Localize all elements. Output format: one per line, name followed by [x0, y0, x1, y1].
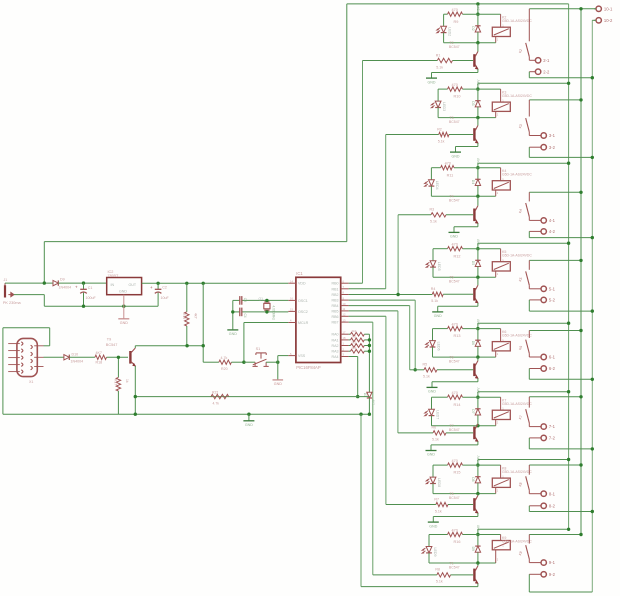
wire channel 8 emitter return — [360, 414, 362, 586]
pad 10-2 — [594, 19, 596, 21]
wire supply branch block 6 — [478, 391, 569, 393]
wire T9 emitter — [134, 366, 136, 414]
svg-text:1N4004: 1N4004 — [59, 286, 72, 290]
wire bottom rail block 8 — [429, 562, 496, 564]
svg-text:R20: R20 — [221, 367, 228, 371]
resistor R23 2k2 — [349, 345, 351, 347]
svg-text:G5D-1A-ASI24VDC: G5D-1A-ASI24VDC — [502, 470, 532, 474]
svg-text:GND: GND — [274, 382, 282, 386]
node supply junction block 7 — [476, 463, 479, 466]
svg-text:RB2: RB2 — [332, 293, 339, 297]
wire bottom rail block 1 — [444, 42, 496, 44]
ground block 1 — [426, 77, 437, 79]
svg-text:R11: R11 — [447, 173, 454, 177]
pin RB4 — [341, 305, 349, 307]
svg-text:R22: R22 — [212, 390, 218, 394]
svg-text:C4: C4 — [243, 314, 247, 318]
wire emitter block 8 return to ground rail — [477, 584, 479, 587]
svg-text:R13: R13 — [454, 334, 461, 338]
svg-text:R6: R6 — [432, 426, 437, 430]
svg-text:470: 470 — [452, 459, 458, 463]
wire DB9 ground loop — [3, 327, 50, 329]
svg-text:4k7: 4k7 — [194, 313, 198, 319]
svg-text:R16: R16 — [454, 540, 461, 544]
svg-text:BC547: BC547 — [449, 45, 460, 49]
svg-text:4.7k: 4.7k — [221, 356, 228, 360]
resistor R20 4.7k — [203, 361, 219, 363]
svg-text:4.7k: 4.7k — [213, 402, 220, 406]
svg-text:LED8: LED8 — [437, 478, 441, 487]
svg-text:5.1k: 5.1k — [436, 580, 443, 584]
svg-text:IN: IN — [111, 283, 115, 287]
wire contact to return rail block 6 — [528, 438, 530, 449]
wire VSS — [278, 355, 289, 357]
svg-text:BC547: BC547 — [449, 565, 460, 569]
svg-text:D7: D7 — [471, 409, 475, 413]
svg-text:R9: R9 — [454, 20, 459, 24]
svg-text:R1: R1 — [436, 53, 441, 57]
LED LED3 — [437, 89, 439, 101]
svg-text:MCLR: MCLR — [298, 321, 309, 325]
resistor R22 4.7k — [211, 394, 229, 398]
relay contact switch K8 — [528, 465, 530, 475]
resistor R8 5.1k — [437, 573, 451, 577]
svg-text:470: 470 — [452, 83, 458, 87]
svg-text:RB3: RB3 — [332, 299, 339, 303]
svg-text:OUT: OUT — [129, 283, 137, 287]
wire bottom rail block 3 — [431, 195, 495, 197]
pin RB0 — [341, 282, 349, 284]
wire bottom rail block 2 — [438, 117, 496, 119]
resistor R7 5.1k — [436, 502, 448, 506]
wire OSC1 — [242, 299, 288, 301]
svg-text:GND: GND — [452, 154, 460, 158]
svg-text:G5D-1A-ASI24VDC: G5D-1A-ASI24VDC — [502, 402, 532, 406]
node supply junction block 1 — [476, 13, 479, 16]
connector X1 DB9 — [17, 338, 37, 376]
relay coil K7 G5D-1A-ASI24VDC — [492, 410, 510, 419]
wire OSC2 — [242, 311, 288, 313]
pin RB5 — [341, 310, 349, 312]
wire contact to return rail block 5 — [528, 369, 530, 380]
wire contact common block 7 — [529, 464, 581, 466]
LED LED2 — [443, 14, 445, 26]
svg-text:LED9: LED9 — [433, 548, 437, 557]
svg-text:D4: D4 — [471, 180, 475, 184]
svg-text:4-2: 4-2 — [549, 229, 556, 234]
wire contact to return rail block 8 — [528, 574, 530, 592]
pad 7-2 — [529, 437, 541, 439]
svg-text:+: + — [150, 285, 153, 290]
svg-text:5.1k: 5.1k — [431, 299, 438, 303]
wire supply branch block 2 — [478, 82, 569, 84]
svg-text:C2: C2 — [162, 286, 167, 290]
wire contact to return rail block 1 — [528, 72, 530, 78]
svg-text:R8: R8 — [435, 568, 440, 572]
transistor T8 BC547 — [477, 494, 479, 496]
svg-text:4K7: 4K7 — [96, 351, 102, 355]
resistor R13 470 — [448, 326, 463, 330]
diode D3 — [477, 89, 479, 101]
switch S1 reset — [244, 361, 255, 363]
svg-text:OSC1: OSC1 — [298, 299, 308, 303]
svg-text:VSS: VSS — [298, 354, 306, 358]
wire RB1 to channel 2 — [349, 288, 386, 290]
diode D9 1N4004 — [53, 280, 58, 285]
relay contact switch K7 — [528, 397, 530, 408]
pin RA4 — [341, 356, 349, 358]
svg-text:470: 470 — [445, 162, 451, 166]
ground block 4 — [432, 311, 443, 313]
svg-text:LED4: LED4 — [435, 181, 439, 190]
svg-text:GND: GND — [245, 423, 253, 427]
svg-text:IC1: IC1 — [296, 271, 303, 276]
wire contact to return rail block 2 — [528, 147, 530, 157]
transistor T5 BC547 — [477, 277, 479, 285]
pad 4-1 — [528, 217, 530, 221]
ground main — [248, 414, 250, 420]
relay coil K2 G5D-1A-ASI24VDC — [492, 27, 510, 36]
wire contact to return rail block 7 — [528, 506, 530, 512]
svg-text:470: 470 — [452, 8, 458, 12]
svg-text:BC547: BC547 — [449, 120, 460, 124]
LED LED5 — [432, 249, 434, 261]
pin RB6 — [341, 315, 349, 317]
svg-text:G5D-1A-ASI24VDC: G5D-1A-ASI24VDC — [502, 173, 532, 177]
pad 8-1 — [528, 490, 530, 494]
resistor R5 5.1k — [424, 368, 437, 372]
svg-text:G5D-1A-ASI24VDC: G5D-1A-ASI24VDC — [502, 540, 532, 544]
svg-text:G5D-1A-ASI24VDC: G5D-1A-ASI24VDC — [502, 334, 532, 338]
pad 5-1 — [528, 285, 530, 289]
resistor R6 5.1k — [433, 431, 446, 435]
svg-text:100uF: 100uF — [86, 296, 97, 300]
svg-text:+24V: +24V — [476, 455, 480, 463]
svg-text:BC547: BC547 — [449, 199, 460, 203]
relay contact switch K3 — [528, 100, 530, 117]
resistor R9 470 — [448, 12, 463, 16]
svg-text:+: + — [75, 285, 78, 290]
wire RB4 to channel 5 — [349, 305, 410, 307]
diode D5 — [477, 249, 479, 261]
resistor R2 5.1k — [439, 132, 449, 136]
pad 2-2 — [529, 71, 535, 73]
svg-text:R4: R4 — [431, 287, 436, 291]
svg-text:5.1k: 5.1k — [423, 375, 430, 379]
wire supply branch block 7 — [478, 459, 569, 461]
wire jack plus — [5, 282, 53, 284]
wire RB2 branch to channel 3 — [397, 215, 399, 295]
svg-text:RB1: RB1 — [332, 287, 339, 291]
svg-text:4V7: 4V7 — [371, 400, 375, 406]
ground block 3 — [449, 231, 460, 233]
svg-text:G5D-1A-ASI24VDC: G5D-1A-ASI24VDC — [502, 94, 532, 98]
svg-text:R17: R17 — [114, 379, 118, 385]
svg-text:RA0: RA0 — [332, 333, 339, 337]
svg-text:3-2: 3-2 — [549, 145, 556, 150]
diode D4 — [477, 168, 479, 180]
svg-text:R5: R5 — [423, 363, 428, 367]
svg-text:RA3: RA3 — [332, 350, 339, 354]
pin VSS — [288, 355, 296, 357]
wire bottom rail block 4 — [433, 276, 496, 278]
resistor R4 5.1k — [432, 292, 443, 296]
pin OSC1 — [288, 299, 296, 301]
node supply junction block 8 — [476, 533, 479, 536]
resistor R21 2k2 — [349, 333, 351, 335]
node supply junction block 6 — [476, 396, 479, 399]
wire +5V rail — [142, 282, 289, 284]
svg-text:+24V: +24V — [476, 318, 480, 326]
capacitor C2 10uF — [157, 283, 159, 289]
svg-text:6-2: 6-2 — [549, 366, 556, 371]
transistor T7 BC547 — [477, 424, 479, 426]
svg-text:BC547: BC547 — [449, 496, 460, 500]
relay contact switch K9 — [528, 535, 530, 544]
connector J1 power jack — [4, 285, 6, 297]
svg-text:5-1: 5-1 — [549, 286, 556, 291]
svg-text:J1: J1 — [4, 278, 8, 282]
pad 10-1 — [594, 8, 596, 10]
LED LED8 — [432, 465, 434, 477]
wire MCLR — [244, 322, 288, 324]
svg-text:RB4: RB4 — [332, 304, 339, 308]
wire bottom rail block 6 — [432, 425, 496, 427]
wire emitter block 4 — [477, 303, 479, 306]
svg-text:RB6: RB6 — [332, 315, 339, 319]
svg-text:RB7: RB7 — [332, 321, 339, 325]
capacitor C3 22pF — [239, 296, 241, 305]
svg-text:9-2: 9-2 — [549, 572, 556, 577]
capacitor C1 100uF — [83, 283, 85, 289]
resistor R18 4K7 — [95, 355, 107, 359]
svg-text:R18: R18 — [96, 361, 103, 365]
resistor R24 2k2 — [349, 350, 351, 352]
svg-text:7-1: 7-1 — [549, 424, 556, 429]
pad 4-2 — [529, 230, 541, 232]
ground crystal caps — [232, 300, 234, 329]
svg-text:R7: R7 — [434, 497, 439, 501]
wire contact common block 8 — [529, 534, 581, 536]
wire bottom rail block 5 — [433, 356, 496, 358]
svg-text:GND: GND — [450, 235, 458, 239]
svg-text:+24V: +24V — [476, 79, 480, 87]
wire emitter block 5 — [477, 378, 479, 381]
relay contact switch K2 — [528, 9, 530, 42]
relay coil K5 G5D-1A-ASI24VDC — [492, 262, 510, 271]
LED LED7 — [431, 397, 433, 409]
svg-text:GND: GND — [427, 453, 435, 457]
supply rail vertical right — [568, 4, 570, 529]
svg-text:GND: GND — [434, 314, 442, 318]
wire top rail block 3 — [431, 167, 440, 169]
ground regulator — [123, 295, 125, 319]
wire contact common block 4 — [529, 259, 581, 261]
svg-text:5-2: 5-2 — [549, 298, 556, 303]
svg-text:5.1k: 5.1k — [436, 65, 443, 69]
relay contact switch K6 — [528, 331, 530, 339]
svg-text:R15: R15 — [454, 471, 461, 475]
diode D9 — [477, 535, 479, 547]
wire contact to return rail block 4 — [528, 300, 530, 311]
ground reset — [273, 379, 284, 381]
LED LED9 — [428, 535, 430, 547]
svg-text:D9: D9 — [471, 547, 475, 551]
diode D2 — [477, 14, 479, 26]
wire supply branch block 3 — [478, 162, 569, 164]
svg-text:D5: D5 — [471, 261, 475, 265]
relay coil K8 G5D-1A-ASI24VDC — [492, 478, 510, 487]
svg-text:GND: GND — [429, 524, 437, 528]
transistor T2 BC547 — [477, 43, 479, 52]
svg-text:2k2: 2k2 — [352, 329, 357, 333]
wire +24V from power input up to relay supply — [44, 241, 347, 243]
wire contact common block 1 — [529, 8, 596, 10]
wire top rail block 7 — [433, 464, 448, 466]
crystal Q1 4.000MHz — [264, 303, 270, 308]
svg-text:3-1: 3-1 — [549, 133, 556, 138]
wire serial base — [107, 356, 129, 358]
svg-text:D9: D9 — [60, 277, 65, 281]
svg-text:R19: R19 — [182, 313, 186, 319]
svg-text:PIC16F84AP: PIC16F84AP — [296, 365, 321, 370]
ground block 5 — [427, 386, 438, 388]
transistor T6 BC547 — [477, 357, 479, 361]
wire top rail block 5 — [433, 328, 448, 330]
svg-text:LED6: LED6 — [436, 342, 440, 351]
pin RB2 — [341, 294, 349, 296]
node supply junction block 4 — [476, 247, 479, 250]
wire T9 collector — [134, 346, 136, 348]
resistor R11 470 — [441, 166, 454, 170]
wire diode to regulator — [58, 282, 106, 284]
resistor R15 470 — [448, 463, 463, 467]
transistor T4 BC547 — [477, 196, 479, 206]
transistor T9 BC547 — [129, 351, 131, 364]
svg-text:C1: C1 — [88, 286, 93, 290]
svg-text:10-2: 10-2 — [604, 18, 613, 23]
wire RB3 to channel 5 — [349, 299, 416, 301]
svg-text:6-1: 6-1 — [549, 355, 556, 360]
relay coil K9 G5D-1A-ASI24VDC — [492, 541, 510, 550]
svg-text:GND: GND — [120, 321, 128, 325]
wire top rail block 2 — [438, 88, 447, 90]
resistor R17 1k pulldown — [117, 357, 119, 377]
svg-text:R10: R10 — [454, 95, 461, 99]
pad 6-1 — [528, 353, 530, 357]
svg-text:470: 470 — [452, 243, 458, 247]
pad 9-1 — [528, 559, 530, 563]
svg-text:GND: GND — [428, 80, 436, 84]
pad 7-1 — [528, 423, 530, 427]
pad 3-1 — [528, 132, 530, 136]
wire contact common block 6 — [529, 396, 581, 398]
pin RB3 — [341, 299, 349, 301]
diode D8 — [477, 465, 479, 477]
svg-text:470: 470 — [452, 322, 458, 326]
svg-text:Q1: Q1 — [259, 297, 264, 301]
svg-text:RB0: RB0 — [332, 282, 339, 286]
svg-text:BC547: BC547 — [449, 280, 460, 284]
node supply junction block 2 — [476, 87, 479, 90]
svg-text:8-1: 8-1 — [549, 491, 556, 496]
svg-text:LED5: LED5 — [437, 262, 441, 271]
svg-text:+24V: +24V — [476, 387, 480, 395]
pin RA0 — [341, 333, 349, 335]
svg-text:RA1: RA1 — [332, 338, 339, 342]
svg-text:RA2: RA2 — [332, 344, 339, 348]
svg-text:10uF: 10uF — [161, 296, 170, 300]
resistor R14 470 — [448, 395, 463, 399]
resistor R19 4k7 — [186, 283, 188, 312]
svg-text:D6: D6 — [471, 341, 475, 345]
pad 6-2 — [529, 368, 541, 370]
svg-text:2k2: 2k2 — [352, 335, 357, 339]
wire top rail block 8 — [429, 534, 448, 536]
ground block 2 — [450, 151, 461, 153]
diode D1 zener — [367, 392, 372, 398]
wire emitter block 1 — [477, 69, 479, 72]
svg-text:1k: 1k — [125, 379, 129, 383]
wire supply branch block 4 — [478, 242, 569, 244]
svg-text:D2: D2 — [471, 26, 475, 30]
wire contact common block 5 — [529, 330, 581, 332]
svg-text:2-1: 2-1 — [543, 58, 550, 63]
wire RB7 to channel 8 — [349, 321, 373, 323]
wire bundle common — [368, 334, 370, 392]
svg-text:R3: R3 — [430, 208, 435, 212]
pin RB1 — [341, 288, 349, 290]
svg-text:GND: GND — [229, 332, 237, 336]
pin RB7 — [341, 321, 349, 323]
wire supply branch block 5 — [478, 322, 569, 324]
wire emitter block 7 — [477, 513, 479, 516]
resistor R3 5.1k — [431, 213, 446, 217]
wire supply drop block 1 — [477, 4, 479, 14]
svg-text:RA4: RA4 — [332, 355, 339, 359]
wire pad 10-2 to return rail — [592, 19, 596, 21]
svg-text:+24V: +24V — [476, 4, 480, 12]
wire top rail block 4 — [433, 248, 448, 250]
svg-text:RB5: RB5 — [332, 309, 339, 313]
wire RB6 to channel 7 — [349, 315, 386, 317]
svg-text:9-1: 9-1 — [549, 560, 556, 565]
svg-text:T9: T9 — [107, 337, 111, 341]
IC IC2 7805T regulator — [107, 278, 142, 295]
svg-text:LED7: LED7 — [435, 410, 439, 419]
wire contact common block 2 — [529, 99, 581, 101]
svg-text:+24V: +24V — [476, 238, 480, 246]
wire top rail block 6 — [432, 396, 448, 398]
relay coil K4 G5D-1A-ASI24VDC — [492, 181, 510, 190]
svg-text:2k2: 2k2 — [352, 346, 357, 350]
svg-text:BC547: BC547 — [106, 343, 118, 347]
svg-text:PK 230ma: PK 230ma — [3, 301, 22, 305]
svg-text:X1: X1 — [29, 380, 33, 384]
svg-text:4.000MHz: 4.000MHz — [272, 306, 276, 321]
svg-text:C3: C3 — [243, 298, 247, 302]
svg-text:LED2: LED2 — [447, 27, 451, 36]
resistor R12 470 — [448, 247, 463, 251]
node supply junction block 5 — [476, 327, 479, 330]
wire power ground rail — [44, 305, 158, 307]
svg-text:5.1k: 5.1k — [430, 220, 437, 224]
LED LED6 — [432, 329, 434, 341]
svg-text:+24V: +24V — [476, 524, 480, 532]
svg-text:R14: R14 — [454, 403, 461, 407]
svg-text:470: 470 — [452, 528, 458, 532]
svg-text:S1: S1 — [256, 347, 261, 351]
